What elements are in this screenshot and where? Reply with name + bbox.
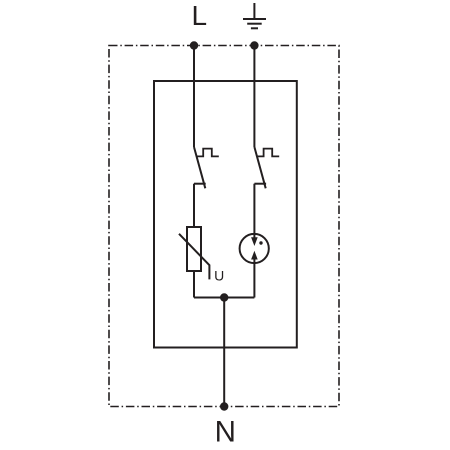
svg-text:U: U [214,267,224,283]
svg-text:N: N [215,415,236,448]
svg-text:L: L [192,0,208,31]
